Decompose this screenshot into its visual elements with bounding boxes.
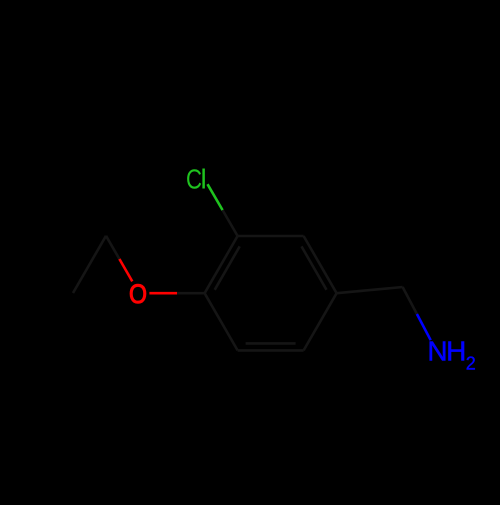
wire bond O-C4 (oxygen half, red) (149, 292, 177, 295)
ring bond C4-C3 (double, inner) (215, 246, 240, 289)
wire bond CH3-CH2 (ethyl, carbon) (73, 236, 106, 293)
wire bond Cl-C3 (carbon half) (223, 210, 238, 236)
wire bond C1-CH2 (benzylic, carbon) (337, 287, 403, 293)
ring bond C6-C5 (double, inner) (246, 342, 296, 345)
svg-text:2: 2 (466, 353, 476, 373)
wire bond Cl-C3 (chlorine half, green) (208, 184, 223, 210)
ring bond C6-C5 (double, outer) (238, 349, 304, 352)
svg-text:O: O (129, 279, 147, 309)
wire bond O-C4 (carbon half) (177, 292, 205, 295)
svg-text:H: H (446, 336, 466, 367)
ring bond C2-C1 (double, outer) (304, 236, 337, 293)
svg-text:l: l (201, 163, 207, 194)
ring bond C2-C1 (double, inner) (302, 246, 327, 289)
wire bond CH2-N (carbon half) (403, 287, 417, 314)
wire bond CH2-O (oxygen half, red) (119, 259, 132, 281)
ring bond C1-C6 (304, 293, 337, 350)
ring bond C4-C3 (double, outer) (205, 236, 238, 293)
wire bond CH2-N (nitrogen half, blue) (417, 314, 431, 340)
svg-text:N: N (427, 336, 447, 367)
ring bond C3-C2 (238, 235, 304, 238)
ring bond C5-C4 (205, 293, 238, 350)
wire bond CH2-O (carbon half) (106, 236, 120, 261)
